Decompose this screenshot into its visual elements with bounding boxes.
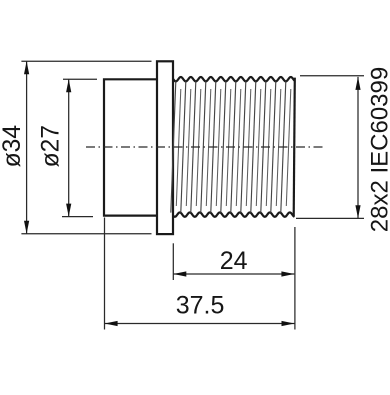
dimension 37.5 arrows [105, 321, 295, 326]
dimension o27 line [68, 79, 70, 216]
dimension o34 line [26, 61, 28, 234]
thread crest wave bottom [173, 212, 295, 216]
svg-text:28x2 IEC60399: 28x2 IEC60399 [367, 67, 390, 232]
dimension 24 arrows [173, 271, 294, 276]
svg-text:24: 24 [220, 247, 248, 275]
dimension o27 extension lines [62, 79, 97, 216]
thread crest wave top [173, 77, 295, 81]
thread flank lines short [176, 89, 290, 206]
dimension 24 line [173, 273, 294, 275]
dimension o27 arrows [66, 79, 71, 216]
dimension 37.5 extension line left [104, 218, 106, 330]
thread flank lines long [171, 81, 286, 212]
flange (o34 collar) [157, 61, 173, 234]
dimension 28x2 line [357, 77, 359, 218]
thread right end edge [294, 78, 295, 217]
dimension o34 extension lines [21, 61, 151, 234]
cylindrical body (o27 barrel) [104, 79, 157, 215]
svg-text:ø34: ø34 [0, 125, 26, 167]
svg-text:37.5: 37.5 [176, 292, 225, 320]
dimension 37.5 line [105, 323, 295, 325]
dimension 28x2 arrows [355, 77, 360, 218]
dimension o34 arrows [24, 61, 29, 234]
centerline [86, 146, 325, 148]
svg-text:ø27: ø27 [38, 125, 65, 167]
dimension 24 extension line left [172, 243, 174, 280]
shared right extension line [294, 227, 296, 330]
dimension 28x2 extension lines [296, 76, 364, 219]
